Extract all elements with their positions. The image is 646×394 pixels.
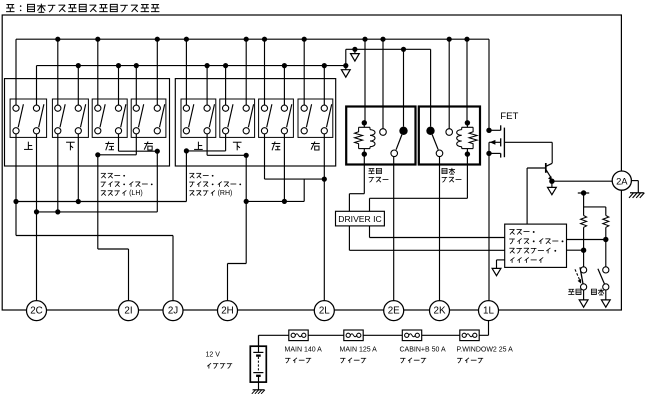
fuse F2 MAIN 125 A	[344, 330, 363, 341]
svg-text:2K: 2K	[434, 306, 446, 317]
off-page arrow below 格納 switch	[583, 290, 585, 300]
connector 2L	[314, 301, 334, 321]
off-page arrow below 復帰 switch	[605, 290, 607, 300]
svg-text:(LH): (LH)	[129, 190, 143, 197]
switch element LH 右R	[160, 104, 165, 127]
junction dot RH 下R	[244, 153, 249, 158]
wire bus1 to return fixed terminal	[448, 39, 450, 129]
svg-text:P.WINDOW2 25 A: P.WINDOW2 25 A	[457, 346, 514, 353]
wire net C horizontal	[246, 200, 304, 202]
switch element LH 下L	[60, 104, 65, 127]
switch unit box RH 右	[298, 99, 333, 137]
junction dot net B at 下L(LH)	[55, 209, 60, 214]
label パワー・アウタ・ミラー・コントロール・モジュール	[509, 228, 514, 230]
switch 格納 (pressed)	[580, 267, 583, 284]
svg-text:2J: 2J	[168, 306, 178, 317]
junction dot on rail	[352, 47, 357, 52]
battery 12V	[258, 335, 260, 352]
svg-text:(RH): (RH)	[218, 190, 233, 197]
label 右 (LH)	[144, 142, 153, 144]
wire RH 左L-右R tie	[264, 134, 266, 179]
wire bus1 to return coil	[466, 39, 468, 123]
resistor R1	[581, 216, 587, 228]
fuse F1 MAIN 140 A	[289, 330, 308, 341]
svg-text:DRIVER IC: DRIVER IC	[338, 214, 381, 224]
junction dot rail to retract relay contact	[401, 47, 406, 52]
label パワー・アウタ・ミラー・スイッチ (RH)	[189, 172, 194, 174]
wire route to 2L	[323, 134, 325, 301]
switch unit box RH 下	[220, 99, 255, 137]
switch element RH 右L	[306, 104, 311, 127]
wire fuse line to battery	[258, 335, 260, 346]
fuse F4 P.WINDOW2 25 A	[460, 330, 479, 341]
label 上 (RH)	[197, 142, 199, 150]
wire net A horizontal	[16, 201, 186, 203]
svg-text:2L: 2L	[319, 306, 330, 317]
wire LH 左L-右L tie	[135, 134, 137, 155]
svg-text:2A: 2A	[616, 175, 628, 186]
off-page arrow below rail dot	[354, 49, 356, 53]
junction dot net C at 下R(RH)	[244, 199, 249, 204]
wire rail to return common	[430, 49, 432, 126]
retract relay coil (resistor+inductor)	[363, 123, 365, 128]
wire DRIVER IC to module pin1	[348, 226, 350, 250]
switch element RH 右R	[327, 104, 332, 127]
driver IC box	[336, 211, 385, 226]
junction dot net B at 上R(LH)	[34, 209, 39, 214]
label 格納	[569, 288, 575, 290]
wire route to 2H	[245, 155, 247, 263]
label パワー・アウタ・ミラー・スイッチ (LH)	[101, 172, 106, 174]
switch unit box RH 上	[181, 99, 216, 137]
wire bus1 top power rail	[16, 38, 489, 40]
return relay common contact	[426, 127, 434, 135]
wire module to resistor net lower	[567, 249, 584, 251]
off-page arrow below Q1 emitter	[551, 181, 553, 187]
svg-text:12 V: 12 V	[206, 352, 221, 359]
svg-text:FET: FET	[500, 111, 518, 122]
junction dot net C at 左R(RH)	[282, 199, 287, 204]
junction dot R2/module	[603, 237, 608, 242]
switch unit box LH 右	[131, 99, 166, 137]
switch unit box LH 上	[10, 99, 47, 137]
node +B tie bar	[578, 192, 589, 194]
svg-text:MAIN 125 A: MAIN 125 A	[340, 346, 378, 353]
switch element RH 左L	[267, 104, 272, 127]
connector 2C	[27, 301, 47, 321]
connector 2A	[612, 171, 631, 190]
connector 2H	[218, 301, 238, 321]
wires bus1 to switch contacts	[15, 39, 17, 105]
return relay 復帰リレー box	[419, 107, 480, 165]
wire Q1 emitter to 2A	[552, 180, 612, 182]
wire route to 2J	[15, 202, 17, 236]
switch element RH 上L	[189, 104, 194, 127]
return relay fixed terminal	[446, 129, 453, 136]
wire net B horizontal	[37, 211, 158, 213]
switch unit box RH 左	[259, 99, 294, 137]
connector 1L	[479, 301, 499, 321]
wire return coil to DRIVER IC	[466, 154, 468, 198]
junction dots on bus2	[76, 63, 81, 68]
wire RH 上L-下L tie	[225, 134, 227, 151]
power outer mirror switch LH bank box	[5, 79, 170, 166]
wire bus1 to retract fixed terminal	[382, 39, 384, 129]
power outer mirror switch RH bank box	[175, 79, 335, 166]
junction dot LH 左L	[95, 152, 100, 157]
wire FET gate to Q1 collector	[504, 141, 552, 143]
fuse F3 CABIN+B 50 A	[402, 330, 421, 341]
wire FET source to 1L	[488, 153, 490, 300]
transistor Q1	[527, 167, 545, 169]
wire bus1 to FET drain	[488, 39, 490, 130]
wire fuse line	[259, 334, 489, 336]
switch 復帰 (released)	[598, 269, 605, 284]
return relay moving contact	[436, 150, 443, 157]
junction dot R1/module	[581, 248, 586, 253]
transistor FET (MOSFET)	[486, 128, 491, 133]
svg-text:CABIN+B 50 A: CABIN+B 50 A	[400, 346, 446, 353]
label 右 (RH)	[311, 142, 320, 144]
return relay armature	[432, 135, 438, 150]
wire route to 2I	[97, 155, 99, 249]
switch element LH 左R	[121, 104, 126, 127]
off-page arrow module left stub	[497, 259, 505, 261]
wire module to resistor net upper	[567, 239, 606, 241]
wires bus2 to switch contacts	[36, 66, 38, 106]
junction dot rail/bus2 tie	[343, 63, 348, 68]
junction dot Q1 emitter	[549, 179, 554, 184]
connector 2J	[163, 301, 183, 321]
label 復帰リレー	[442, 168, 447, 173]
junction dot net A at 下R(LH)	[76, 199, 81, 204]
label 左 (LH)	[105, 142, 114, 144]
wire bus2 second power rail	[37, 65, 346, 67]
ground at 2A	[631, 180, 638, 182]
junction dots on bus1	[55, 37, 60, 42]
wire Q1 base to module	[526, 168, 528, 224]
switch element LH 右L	[139, 104, 144, 127]
switch element LH 上R	[39, 104, 44, 127]
switch unit box LH 左	[92, 99, 127, 137]
label 下 (RH)	[233, 141, 242, 143]
svg-text:2I: 2I	[124, 306, 132, 317]
wire route to 2C	[36, 212, 38, 301]
retract relay moving contact	[391, 150, 398, 157]
junction dot RH 上L	[184, 148, 189, 153]
label 下 (LH)	[66, 141, 75, 143]
wire rail (bus2 extension to relays)	[346, 48, 431, 50]
wire DRIVER IC to module pin2	[369, 226, 371, 238]
ground below battery	[258, 376, 260, 390]
wire LH 左R-右R tie	[118, 134, 120, 151]
svg-text:2C: 2C	[30, 306, 43, 317]
junction dot net A at 上L(LH)	[13, 199, 18, 204]
switch element LH 上L	[18, 104, 23, 127]
label 上 (LH)	[27, 142, 29, 150]
svg-text:2E: 2E	[388, 306, 400, 317]
wire bus1 to retract coil	[364, 39, 366, 123]
connector 2E	[384, 301, 404, 321]
svg-text:1L: 1L	[483, 306, 494, 317]
switch element LH 左L	[100, 104, 105, 127]
junction dot LH 右R	[155, 149, 160, 154]
junction dot RH 右R	[322, 177, 327, 182]
switch element RH 左R	[287, 104, 292, 127]
wire retract coil to DRIVER IC	[363, 154, 365, 194]
svg-text:MAIN 140 A: MAIN 140 A	[285, 346, 323, 353]
wire rail to retract common	[403, 49, 405, 126]
wire return contact to 2K	[439, 157, 441, 301]
off-page arrow below bus2 end	[345, 66, 347, 70]
title text 例：復帰から格納に切替えた場合	[6, 4, 14, 6]
return relay coil (resistor+inductor)	[466, 123, 468, 128]
switch element LH 下R	[81, 104, 86, 127]
wire 1L to fuse line	[488, 321, 490, 336]
switch element RH 下L	[228, 104, 233, 127]
switch element RH 下R	[248, 104, 253, 127]
outer boundary box (harness)	[2, 15, 621, 310]
connector 2I	[119, 301, 139, 321]
wire RH 上R-下R tie	[206, 134, 208, 155]
svg-text:2H: 2H	[221, 306, 234, 317]
retract relay fixed terminal	[380, 129, 387, 136]
retract relay common contact	[399, 127, 407, 135]
label 復帰	[591, 289, 596, 294]
label 左 (RH)	[272, 142, 281, 144]
retract relay 格納リレー box	[346, 107, 415, 165]
label 格納リレー	[369, 167, 375, 169]
retract relay armature	[396, 135, 402, 150]
switch element RH 上R	[209, 104, 214, 127]
wire retract contact to 2E	[393, 157, 395, 301]
power outer mirror control module box	[505, 224, 567, 267]
resistor R2	[603, 216, 609, 228]
switch unit box LH 下	[52, 99, 88, 137]
connector 2K	[430, 301, 450, 321]
